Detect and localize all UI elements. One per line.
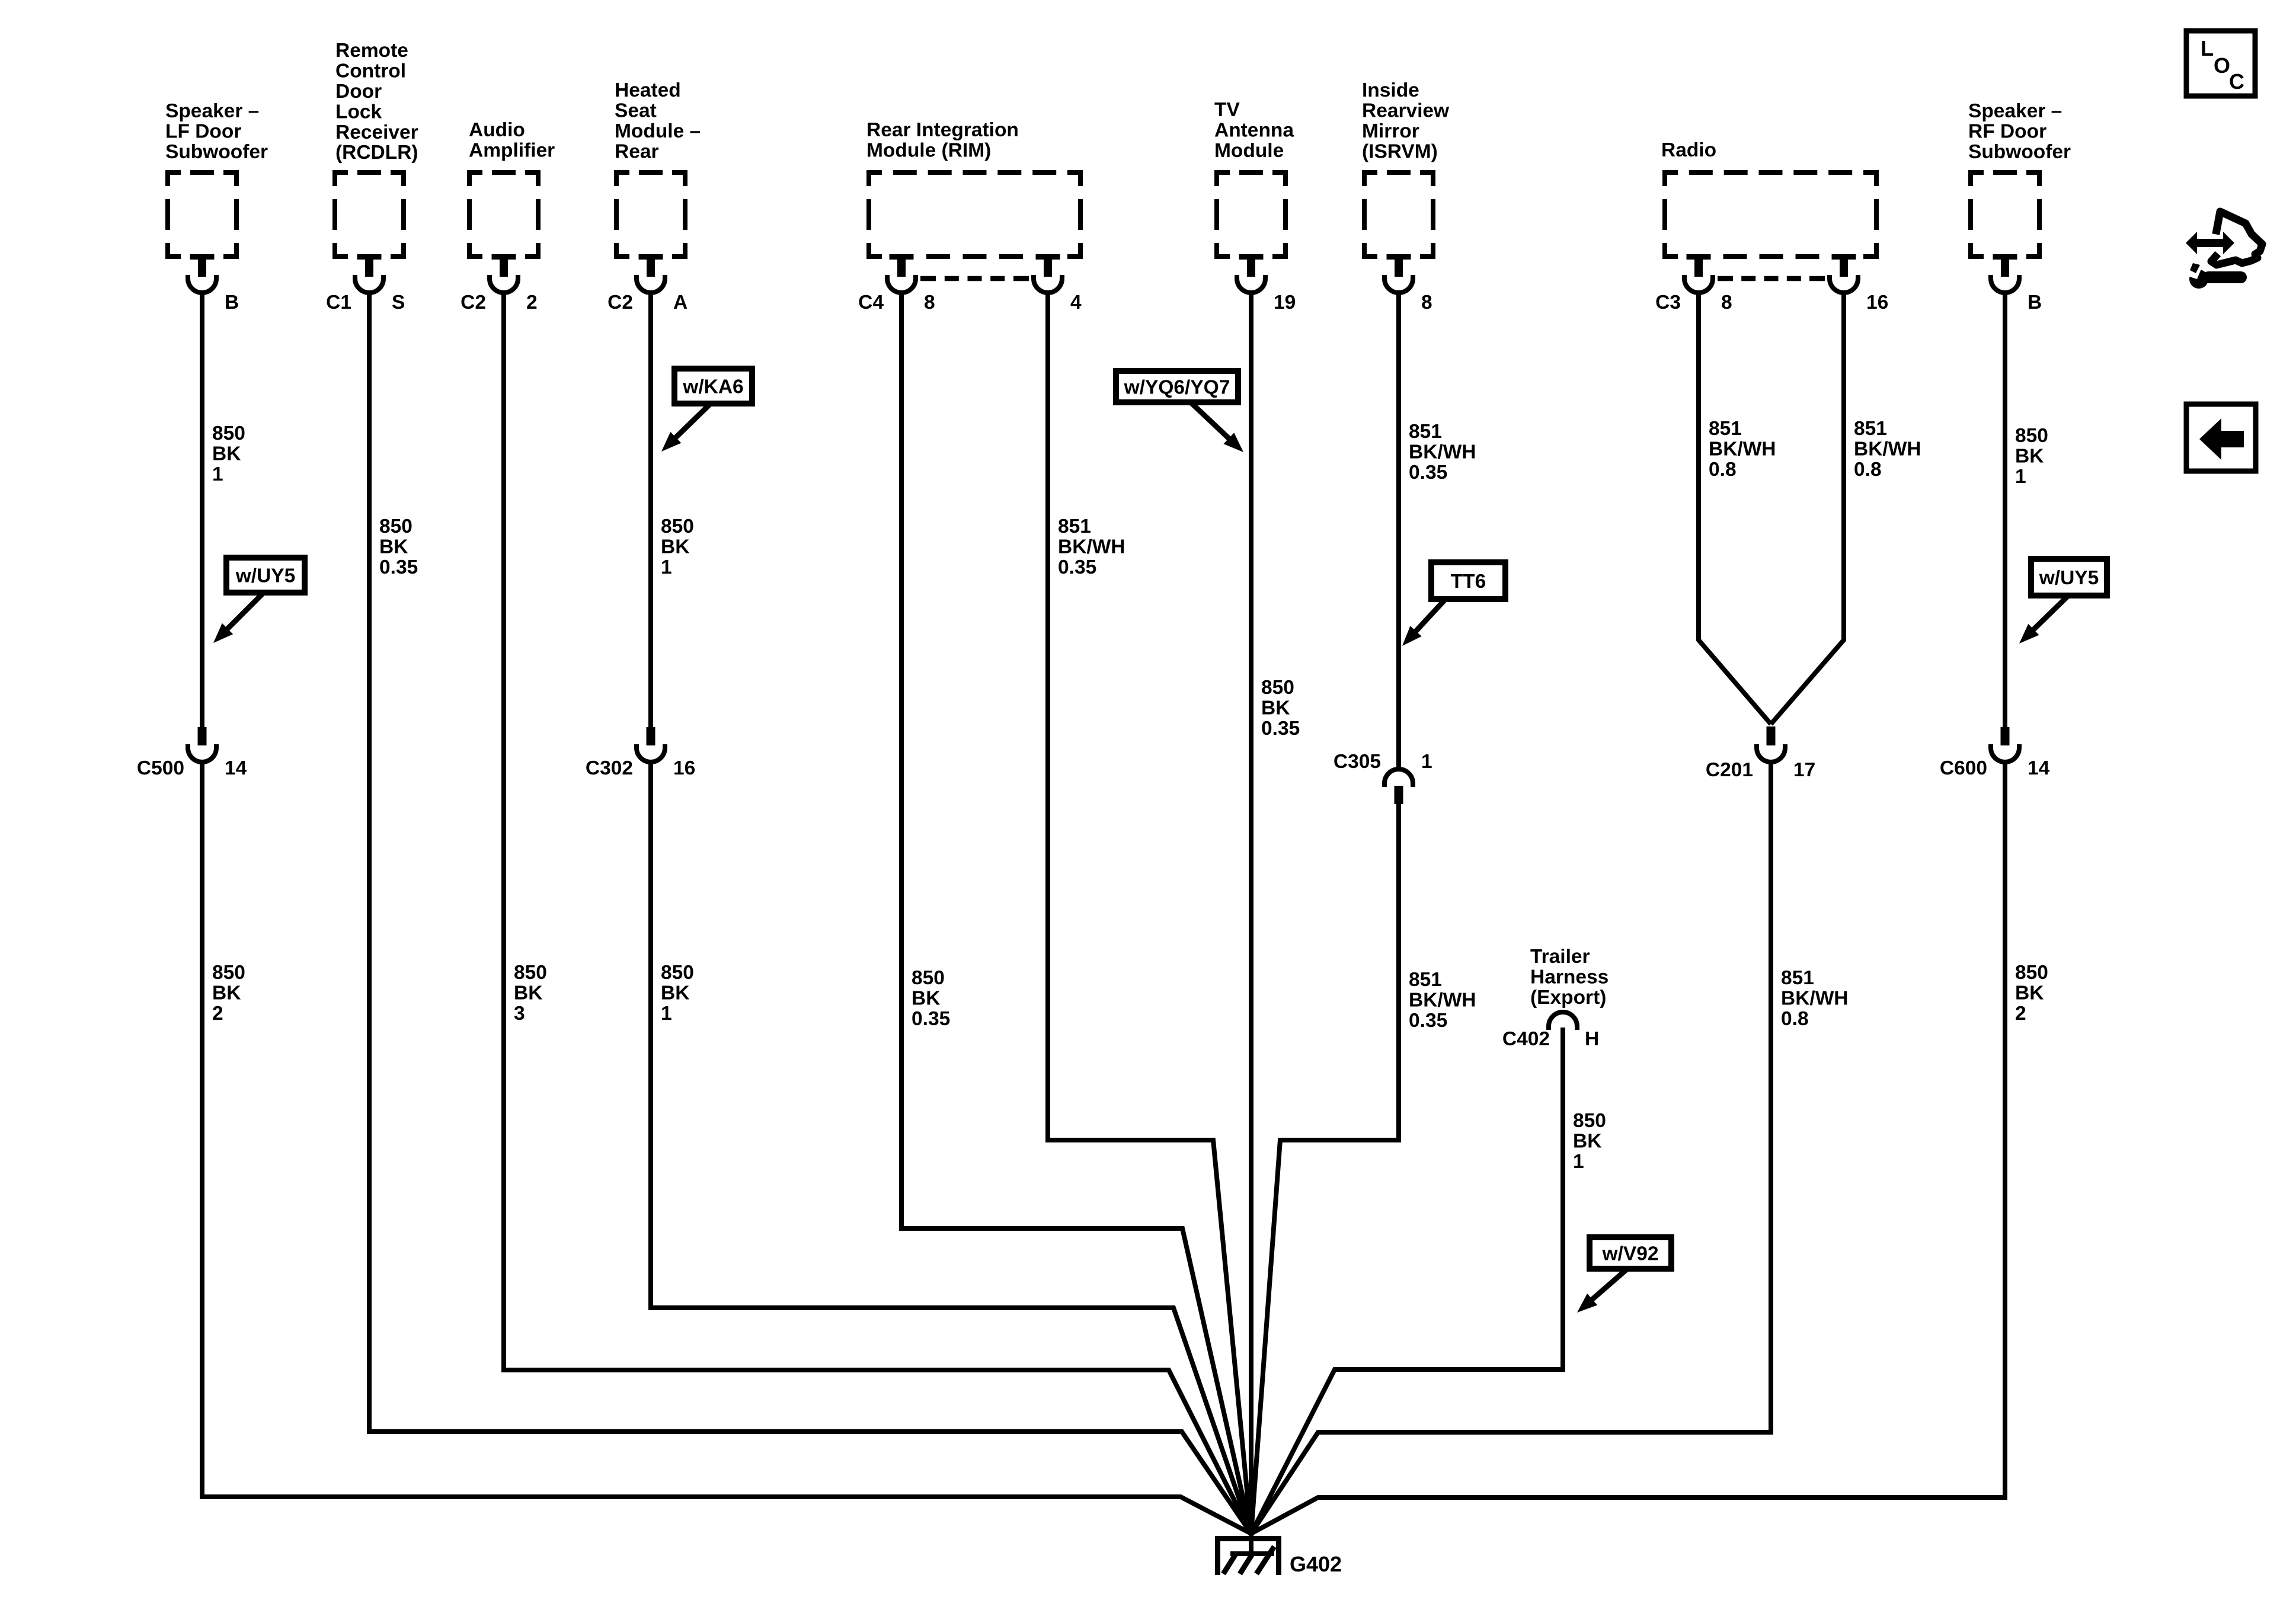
svg-text:8: 8 <box>1721 292 1732 313</box>
svg-text:C302: C302 <box>586 757 633 779</box>
pin 4 of RIM <box>1036 255 1060 260</box>
svg-text:C600: C600 <box>1940 757 1987 779</box>
svg-text:Module: Module <box>1214 140 1284 162</box>
svg-text:BK/WH: BK/WH <box>1854 438 1921 460</box>
svg-text:Inside: Inside <box>1362 79 1419 101</box>
svg-text:1: 1 <box>1573 1151 1584 1173</box>
wire 850 BK from RIM pin C4-8 to ground G402 <box>901 292 1251 1534</box>
svg-text:BK: BK <box>661 536 689 558</box>
wire 850 BK from LF speaker pin B to C500 <box>200 292 204 728</box>
component Inside Rearview Mirror (ISRVM) <box>1362 79 1450 313</box>
svg-text:2: 2 <box>526 292 538 313</box>
svg-text:A: A <box>673 292 687 313</box>
svg-text:850: 850 <box>212 422 245 444</box>
svg-text:851: 851 <box>1409 421 1442 443</box>
svg-text:BK: BK <box>2015 446 2044 468</box>
svg-text:850: 850 <box>912 967 945 989</box>
component Audio Amplifier <box>461 119 555 313</box>
svg-text:1: 1 <box>661 1003 672 1025</box>
svg-text:850: 850 <box>2015 962 2048 984</box>
wire 851 BK/WH from Radio pin C3-8 to junction <box>1699 292 1771 724</box>
svg-text:TT6: TT6 <box>1451 571 1486 593</box>
svg-text:0.35: 0.35 <box>1261 718 1300 740</box>
wire 850 BK from RCDLR pin S to ground G402 <box>369 292 1251 1534</box>
svg-text:0.8: 0.8 <box>1781 1008 1809 1030</box>
svg-text:BK: BK <box>2015 982 2044 1004</box>
icon connector-service symbol (arrow, body outline, wrench) <box>2182 212 2262 289</box>
svg-text:C500: C500 <box>137 757 184 779</box>
svg-text:(Export): (Export) <box>1530 987 1606 1009</box>
option flag w/UY5 (right) <box>2031 559 2107 596</box>
svg-text:850: 850 <box>1573 1110 1606 1132</box>
svg-text:Rear Integration: Rear Integration <box>866 119 1019 141</box>
component Heated Seat Module - Rear <box>607 79 701 313</box>
component Rear Integration Module (RIM) <box>858 119 1083 313</box>
svg-text:B: B <box>2028 292 2042 313</box>
svg-text:BK: BK <box>379 536 408 558</box>
ground G402 <box>1215 1532 1342 1576</box>
svg-text:Receiver: Receiver <box>335 121 418 143</box>
svg-text:19: 19 <box>1274 292 1296 313</box>
svg-text:850: 850 <box>661 962 694 984</box>
svg-text:C4: C4 <box>858 292 884 313</box>
svg-text:H: H <box>1585 1028 1599 1050</box>
svg-text:Heated: Heated <box>615 79 681 101</box>
component Trailer Harness (Export) <box>1502 946 1609 1050</box>
svg-text:BK/WH: BK/WH <box>1781 988 1849 1010</box>
svg-text:G402: G402 <box>1290 1552 1342 1576</box>
svg-text:BK: BK <box>514 982 542 1004</box>
wire 850 BK from C302 to ground G402 <box>651 761 1251 1534</box>
connector C305 <box>1334 751 1432 804</box>
svg-text:14: 14 <box>2028 757 2050 779</box>
svg-text:1: 1 <box>1421 751 1432 773</box>
svg-text:w/UY5: w/UY5 <box>2039 567 2099 589</box>
svg-text:Lock: Lock <box>335 101 382 123</box>
svg-text:C1: C1 <box>326 292 351 313</box>
svg-text:Amplifier: Amplifier <box>469 140 555 162</box>
svg-text:w/V92: w/V92 <box>1602 1243 1659 1265</box>
svg-text:Audio: Audio <box>469 119 525 141</box>
connector C201 <box>1706 726 1815 781</box>
option flag w/V92 <box>1590 1237 1671 1269</box>
icon LOC reference box <box>2186 31 2255 96</box>
svg-text:850: 850 <box>2015 425 2048 447</box>
svg-text:Door: Door <box>335 81 382 103</box>
svg-text:(ISRVM): (ISRVM) <box>1362 140 1438 162</box>
svg-text:C402: C402 <box>1502 1028 1550 1050</box>
connector C600 <box>1940 727 2050 779</box>
component Speaker - RF Door Subwoofer <box>1968 100 2071 313</box>
svg-text:L: L <box>2201 36 2214 60</box>
svg-text:BK: BK <box>1573 1131 1601 1153</box>
svg-text:C2: C2 <box>607 292 633 313</box>
wire 851 BK/WH from RIM pin 4 to ground G402 <box>1048 292 1251 1534</box>
svg-text:O: O <box>2214 53 2230 78</box>
svg-text:0.35: 0.35 <box>912 1008 950 1030</box>
connector C302 <box>586 727 695 779</box>
svg-text:14: 14 <box>225 757 247 779</box>
svg-text:w/UY5: w/UY5 <box>235 565 296 587</box>
svg-text:850: 850 <box>1261 677 1294 699</box>
svg-text:C: C <box>2229 69 2244 94</box>
component Radio <box>1655 139 1888 313</box>
svg-text:Seat: Seat <box>615 100 657 122</box>
svg-text:C305: C305 <box>1334 751 1381 773</box>
wire 850 BK from C600 to ground G402 <box>1251 761 2005 1534</box>
svg-text:Speaker –: Speaker – <box>165 100 259 122</box>
svg-text:BK/WH: BK/WH <box>1409 441 1476 463</box>
svg-text:1: 1 <box>212 463 223 485</box>
wire 851 BK/WH from C305 to ground G402 <box>1251 802 1399 1534</box>
svg-text:851: 851 <box>1781 967 1814 989</box>
svg-text:Module (RIM): Module (RIM) <box>866 140 991 162</box>
svg-text:Speaker –: Speaker – <box>1968 100 2062 122</box>
svg-text:4: 4 <box>1070 292 1082 313</box>
svg-text:Radio: Radio <box>1661 139 1716 161</box>
svg-text:C201: C201 <box>1706 759 1753 781</box>
wire 851 BK/WH from C201 to ground G402 <box>1251 761 1771 1534</box>
svg-text:BK/WH: BK/WH <box>1409 990 1476 1012</box>
pin 16 of Radio <box>1832 255 1856 260</box>
wire 851 BK/WH from Radio pin 16 to junction <box>1771 292 1844 724</box>
svg-text:851: 851 <box>1058 516 1091 537</box>
pin C3-8 of Radio <box>1687 255 1711 260</box>
svg-text:BK: BK <box>1261 697 1290 719</box>
wire 850 BK from C500 to ground G402 <box>202 761 1251 1534</box>
svg-text:0.35: 0.35 <box>1409 462 1447 484</box>
svg-text:Mirror: Mirror <box>1362 120 1419 142</box>
svg-text:Antenna: Antenna <box>1214 120 1294 142</box>
svg-text:16: 16 <box>1866 292 1888 313</box>
svg-text:BK: BK <box>212 982 241 1004</box>
svg-text:RF Door: RF Door <box>1968 121 2046 143</box>
wire 850 BK from RF speaker pin B to C600 <box>2003 292 2007 728</box>
svg-text:S: S <box>392 292 405 313</box>
option flag TT6 <box>1431 562 1505 599</box>
svg-text:Trailer: Trailer <box>1530 946 1590 968</box>
svg-text:Control: Control <box>335 60 406 82</box>
svg-text:TV: TV <box>1214 99 1240 121</box>
svg-text:2: 2 <box>2015 1003 2026 1025</box>
svg-text:850: 850 <box>661 516 694 537</box>
svg-text:851: 851 <box>1709 418 1742 440</box>
svg-text:3: 3 <box>514 1003 525 1025</box>
svg-text:B: B <box>225 292 239 313</box>
component Remote Control Door Lock Receiver (RCDLR) <box>326 40 418 313</box>
svg-text:0.8: 0.8 <box>1854 459 1882 481</box>
svg-text:C2: C2 <box>461 292 486 313</box>
svg-text:Subwoofer: Subwoofer <box>1968 141 2071 163</box>
option flag w/KA6 <box>674 369 752 404</box>
svg-text:BK: BK <box>212 443 241 465</box>
icon backward arrow box <box>2186 404 2256 471</box>
svg-text:0.35: 0.35 <box>1058 556 1096 578</box>
svg-text:850: 850 <box>379 516 412 537</box>
svg-text:16: 16 <box>673 757 695 779</box>
svg-text:BK: BK <box>661 982 689 1004</box>
svg-text:2: 2 <box>212 1003 223 1025</box>
svg-text:BK: BK <box>912 988 940 1010</box>
component Speaker - LF Door Subwoofer <box>165 100 268 313</box>
svg-text:(RCDLR): (RCDLR) <box>335 142 418 164</box>
svg-text:Remote: Remote <box>335 40 408 62</box>
svg-text:851: 851 <box>1854 418 1887 440</box>
svg-text:1: 1 <box>2015 466 2026 488</box>
connector body dashed line RIM <box>920 276 1029 281</box>
svg-text:Rear: Rear <box>615 140 659 162</box>
svg-text:Rearview: Rearview <box>1362 100 1450 122</box>
wire 850 BK from Trailer Harness C402-H to ground G402 <box>1251 1028 1563 1534</box>
svg-text:Harness: Harness <box>1530 966 1609 988</box>
option flag w/YQ6/YQ7 <box>1116 371 1238 402</box>
svg-text:0.35: 0.35 <box>1409 1010 1447 1032</box>
svg-text:0.8: 0.8 <box>1709 459 1737 481</box>
svg-text:w/YQ6/YQ7: w/YQ6/YQ7 <box>1124 377 1230 399</box>
svg-text:850: 850 <box>514 962 547 984</box>
svg-text:8: 8 <box>1421 292 1432 313</box>
svg-text:Subwoofer: Subwoofer <box>165 141 268 163</box>
svg-text:8: 8 <box>924 292 935 313</box>
svg-text:BK/WH: BK/WH <box>1709 438 1776 460</box>
wire 850 BK from Audio Amplifier pin 2 to ground G402 <box>504 292 1251 1534</box>
connector body dashed line Radio <box>1718 276 1825 281</box>
wire 851 BK/WH from ISRVM pin 8 to C305 <box>1396 292 1401 770</box>
wire 850 BK from TV Antenna Module pin 19 to ground G402 <box>1249 292 1253 1534</box>
svg-text:1: 1 <box>661 556 672 578</box>
option flag w/UY5 (left) <box>226 558 305 593</box>
wire 850 BK from Heated Seat Module pin A to C302 <box>648 292 653 728</box>
connector C500 <box>137 727 247 779</box>
svg-text:851: 851 <box>1409 969 1442 991</box>
pin C4-8 of RIM <box>890 255 914 260</box>
component TV Antenna Module <box>1214 99 1296 313</box>
svg-text:Module –: Module – <box>615 120 701 142</box>
svg-text:850: 850 <box>212 962 245 984</box>
svg-text:0.35: 0.35 <box>379 556 418 578</box>
svg-text:BK/WH: BK/WH <box>1058 536 1125 558</box>
svg-text:C3: C3 <box>1655 292 1681 313</box>
svg-text:w/KA6: w/KA6 <box>682 376 743 398</box>
svg-text:17: 17 <box>1793 759 1815 781</box>
svg-text:LF Door: LF Door <box>165 121 241 143</box>
